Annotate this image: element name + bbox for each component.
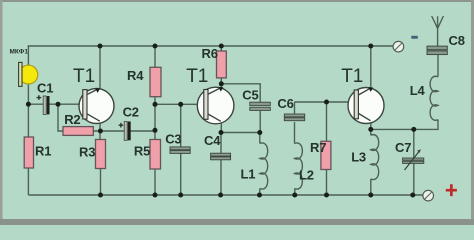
svg-text:R1: R1: [35, 144, 51, 159]
svg-text:R3: R3: [79, 144, 95, 159]
svg-text:C3: C3: [165, 131, 181, 146]
svg-text:C4: C4: [204, 133, 221, 148]
svg-text:R6: R6: [202, 46, 218, 61]
svg-text:T1: T1: [341, 66, 363, 87]
svg-text:МКФ1: МКФ1: [10, 49, 29, 56]
svg-text:C1: C1: [37, 80, 53, 95]
svg-text:L3: L3: [351, 149, 366, 164]
svg-text:R5: R5: [134, 144, 150, 159]
svg-text:L4: L4: [410, 83, 426, 98]
svg-text:R2: R2: [64, 112, 80, 127]
svg-text:C2: C2: [123, 104, 139, 119]
svg-text:C5: C5: [242, 88, 258, 103]
svg-text:R7: R7: [310, 140, 326, 155]
svg-text:L2: L2: [299, 167, 314, 182]
svg-text:C7: C7: [395, 140, 411, 155]
svg-text:C6: C6: [277, 96, 293, 111]
svg-text:T1: T1: [73, 66, 95, 87]
svg-text:C8: C8: [449, 33, 465, 48]
svg-text:L1: L1: [241, 166, 256, 181]
svg-text:T1: T1: [186, 66, 208, 87]
svg-text:R4: R4: [127, 68, 144, 83]
